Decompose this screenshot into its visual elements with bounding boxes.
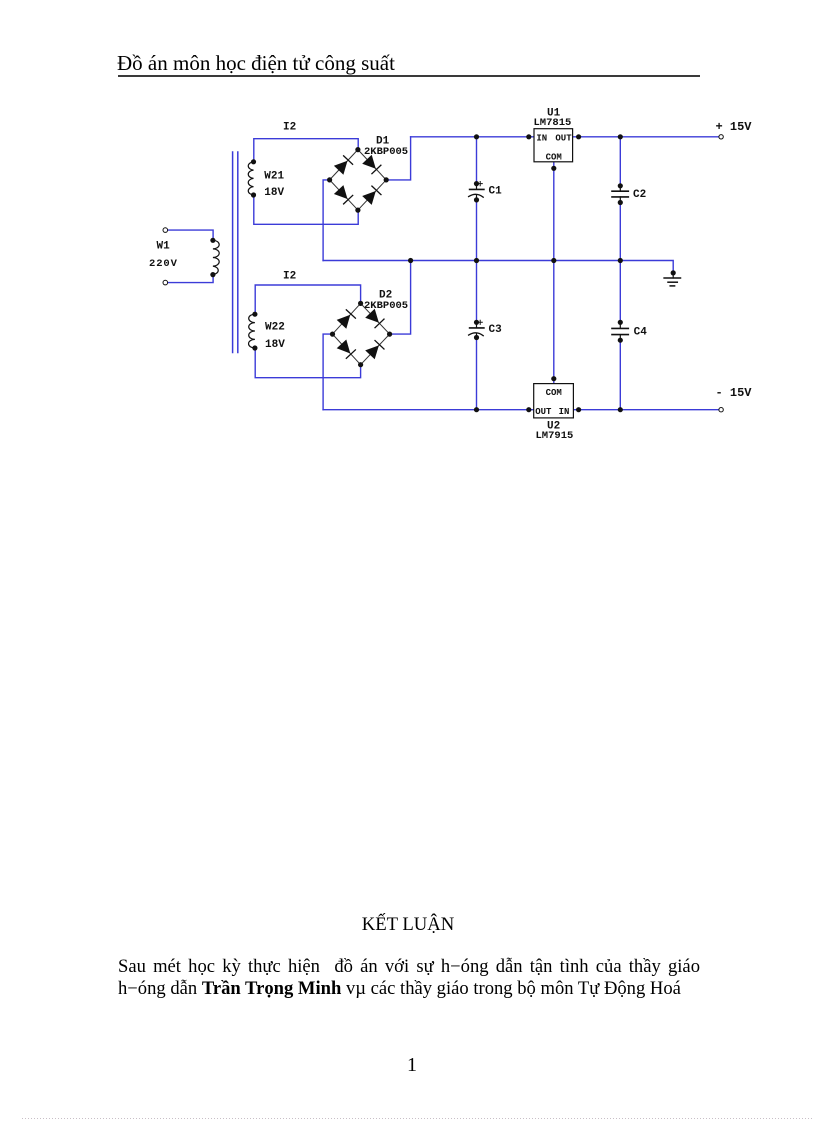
terminal -15V [719, 408, 723, 412]
heading KET LUAN [108, 914, 708, 936]
wire: C1 branch [476, 137, 478, 184]
junction dot W21 top [251, 159, 256, 164]
wire: C3 branch [476, 261, 478, 323]
svg-text:COM: COM [546, 388, 562, 398]
svg-text:C2: C2 [633, 189, 646, 201]
junction dot W22 bottom [252, 345, 257, 350]
svg-text:LM7815: LM7815 [534, 117, 572, 129]
terminal +15V [719, 135, 723, 139]
header underline [118, 75, 700, 77]
terminal W1 top [163, 228, 168, 233]
transformer core line left [232, 152, 234, 353]
junction dot W1 coil top [210, 238, 215, 243]
inductor W22 secondary coil [249, 314, 255, 348]
svg-text:18V: 18V [264, 187, 284, 199]
junction dot C4 bottom rail [618, 407, 623, 412]
svg-text:IN: IN [536, 133, 547, 143]
wire: mid 0V rail [323, 261, 673, 271]
wire: primary bottom from terminal to corner [168, 275, 214, 283]
wire: primary top from terminal to corner [168, 230, 214, 240]
wire: C2 branch [619, 137, 621, 186]
inductor W21 secondary coil [248, 162, 253, 195]
capacitor C2 [612, 183, 628, 205]
bridge rectifier D2 [330, 301, 392, 368]
wire: top +rail [411, 136, 719, 138]
svg-text:OUT: OUT [555, 133, 572, 143]
junction dot U1 COM pin [551, 166, 556, 171]
svg-text:W1: W1 [157, 241, 171, 253]
footer dotted line [22, 1118, 812, 1119]
junction dot U2 OUT pin [526, 407, 531, 412]
junction dot W22 top [252, 312, 257, 317]
wire: D2 left node down to -rail [323, 334, 332, 410]
page number [400, 1054, 424, 1077]
wire: bottom -rail [323, 409, 719, 411]
svg-text:18V: 18V [265, 339, 285, 351]
svg-text:OUT: OUT [535, 407, 552, 417]
junction dot W1 coil bottom [210, 272, 215, 277]
wire: W21 loop bottom [254, 195, 358, 224]
svg-text:LM7915: LM7915 [536, 430, 574, 442]
wire: C4 branch [619, 261, 621, 323]
svg-text:I2: I2 [283, 122, 296, 134]
header title [117, 51, 395, 76]
junction dot U1 OUT pin [576, 134, 581, 139]
junction dot W21 bottom [251, 192, 256, 197]
wire: D2 right node up to mid rail [390, 261, 411, 335]
terminal W1 bottom [163, 280, 168, 285]
junction dot U1 IN pin [526, 134, 531, 139]
junction dot mid rail C2/C4 [618, 258, 623, 263]
transformer core line right [237, 152, 239, 353]
junction dot mid rail C1/C3 [474, 258, 479, 263]
wire: D1 left node to mid rail [323, 180, 330, 261]
svg-text:2KBP005: 2KBP005 [364, 146, 408, 158]
svg-text:COM: COM [546, 153, 562, 163]
capacitor C4 [612, 320, 628, 343]
svg-text:W21: W21 [264, 170, 284, 182]
wire: W22 loop top (I2) [255, 285, 360, 314]
op-amp/regulator U2 LM7915 box [534, 384, 574, 418]
svg-text:+ 15V: + 15V [716, 120, 753, 134]
paragraph line 2 [118, 978, 718, 1000]
svg-text:C4: C4 [634, 327, 648, 339]
svg-text:220V: 220V [149, 258, 178, 270]
bridge rectifier D1 [327, 147, 389, 213]
junction dot U2 IN pin [576, 407, 581, 412]
svg-text:IN: IN [559, 407, 570, 417]
svg-text:I2: I2 [283, 271, 296, 283]
paragraph line 1 (justified) [118, 956, 700, 978]
wire: U1 COM to mid rail [553, 162, 555, 261]
svg-text:W22: W22 [265, 322, 285, 334]
junction dot C1 top rail [474, 134, 479, 139]
svg-text:C1: C1 [489, 186, 503, 198]
wire: W22 loop bottom [255, 348, 360, 378]
junction dot mid rail COM [551, 258, 556, 263]
capacitor C1 (polarized) [469, 181, 484, 202]
wire: D1 right node up to +rail [386, 137, 410, 180]
junction dot C2 top rail [618, 134, 623, 139]
wire: U2 COM to mid rail [553, 261, 555, 384]
ground symbol [664, 270, 680, 286]
junction dot mid rail D2 tee [408, 258, 413, 263]
capacitor C3 (polarized) [469, 320, 484, 340]
svg-text:2KBP005: 2KBP005 [364, 300, 408, 312]
circuit schematic SVG [0, 0, 816, 460]
svg-text:C3: C3 [489, 324, 503, 336]
inductor W1 primary coil [213, 240, 219, 274]
junction dot C3 bottom rail [474, 407, 479, 412]
op-amp/regulator U1 LM7815 box [534, 129, 573, 163]
wire: W21 loop top (I2) [254, 139, 358, 162]
svg-text:- 15V: - 15V [716, 386, 753, 400]
junction dot U2 COM pin [551, 376, 556, 381]
